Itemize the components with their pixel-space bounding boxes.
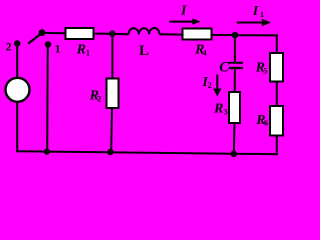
wire contact 1 stem to bottom (46, 45, 49, 152)
current arrow I (169, 18, 201, 24)
wire R4 to node B (212, 34, 235, 36)
wire R6 to bottom right corner (276, 136, 278, 155)
label R5 (255, 61, 268, 76)
label R6 (255, 113, 268, 128)
svg-text:2: 2 (208, 81, 212, 90)
wire top segment pivot to R1 (41, 32, 66, 34)
wire R1 to node A (95, 33, 113, 35)
wire left vertical bottom from source (16, 103, 18, 153)
wire R2 stem bottom (110, 108, 113, 152)
label R2 (89, 88, 102, 103)
wire inductor to R4 (160, 33, 183, 35)
node bottom dot under R2 (107, 149, 114, 156)
label R4 (194, 43, 207, 58)
resistor R2 (107, 79, 119, 109)
svg-text:1: 1 (86, 48, 90, 57)
node A junction dot (109, 30, 116, 37)
svg-text:2: 2 (6, 40, 12, 54)
bottom wire (16, 151, 278, 154)
switch contact 2 dot (14, 40, 20, 46)
source V1 circle (6, 78, 30, 102)
resistor R5 (270, 53, 283, 82)
wire R5 to R6 (276, 82, 278, 107)
wire right vertical to R5 (276, 34, 278, 53)
inductor L (129, 28, 160, 34)
capacitor C (229, 62, 243, 69)
switch pivot dot (39, 29, 46, 36)
svg-text:R: R (76, 43, 86, 58)
resistor R1 (66, 28, 94, 39)
wire R3 to bottom wire (233, 123, 236, 155)
svg-text:C: C (219, 60, 230, 76)
svg-text:6: 6 (264, 119, 268, 128)
label I2 (201, 75, 211, 90)
svg-text:I: I (252, 4, 259, 19)
svg-text:3: 3 (224, 107, 228, 116)
resistor R3 (229, 92, 240, 123)
wire R2 stem top (111, 34, 113, 79)
wire capacitor stem from node B (234, 35, 236, 62)
current arrow I1 (237, 19, 271, 26)
svg-text:2: 2 (97, 94, 101, 103)
wire contact 2 stem to source (16, 44, 18, 78)
svg-text:R: R (213, 101, 223, 116)
switch arm (28, 33, 42, 44)
node B junction dot (232, 32, 239, 39)
label I1 (252, 4, 264, 19)
label R1 (76, 43, 90, 58)
svg-text:4: 4 (203, 48, 207, 57)
resistor R6 (270, 106, 283, 136)
resistor R4 (183, 29, 212, 40)
svg-text:L: L (139, 43, 149, 59)
node bottom dot under switch contact 1 (44, 148, 50, 154)
wire node B to right corner (235, 34, 277, 36)
svg-text:1: 1 (55, 42, 61, 56)
svg-text:1: 1 (260, 10, 264, 19)
current arrow I2 (213, 75, 221, 97)
label R3 (213, 101, 228, 116)
node bottom C junction dot (231, 151, 238, 158)
wire node A to inductor (112, 33, 128, 35)
wire capacitor to R3 (234, 69, 236, 92)
svg-text:5: 5 (263, 67, 267, 76)
switch contact 1 dot (45, 41, 51, 47)
svg-text:I: I (180, 4, 187, 19)
